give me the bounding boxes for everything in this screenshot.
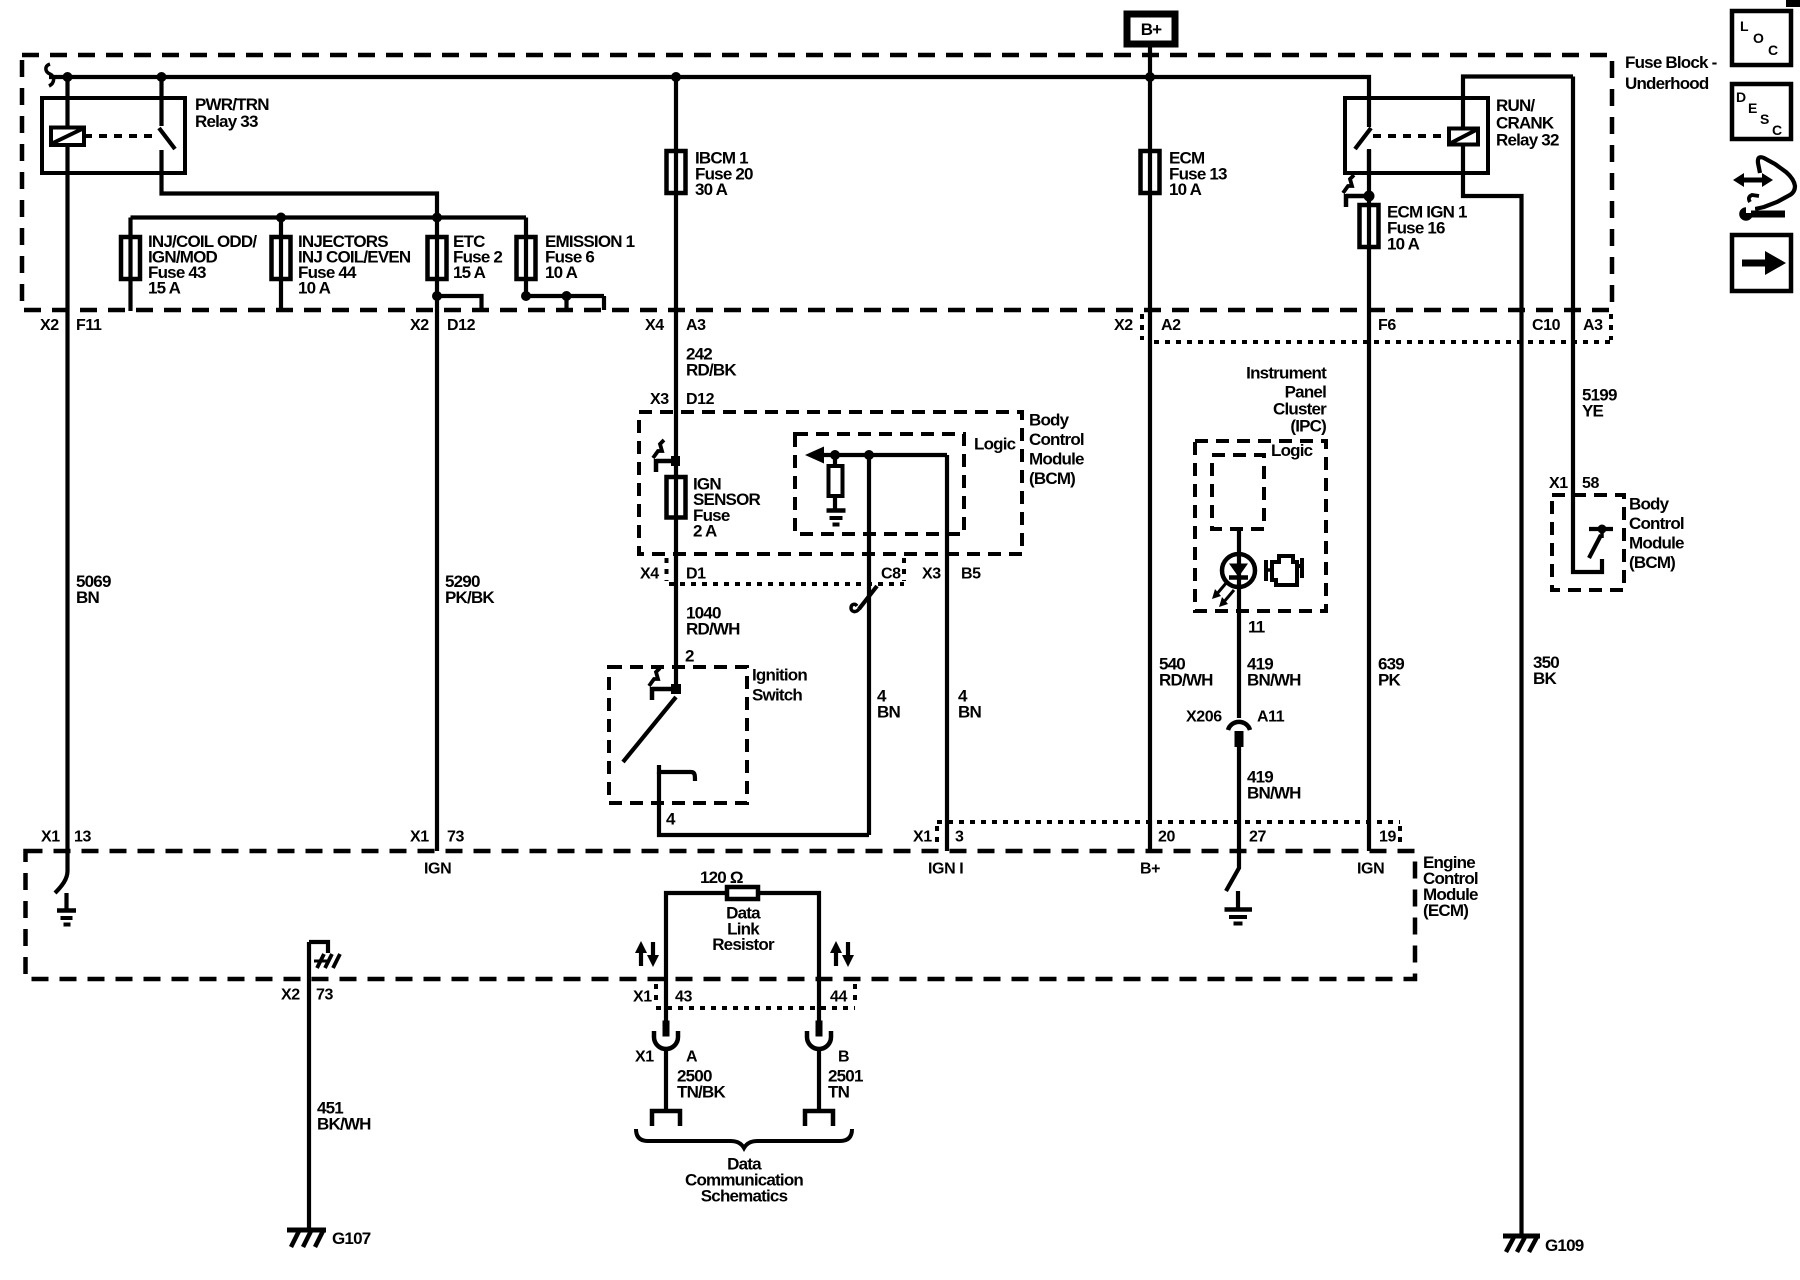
svg-text:(ECM): (ECM) bbox=[1423, 901, 1468, 920]
svg-text:X1: X1 bbox=[41, 829, 60, 846]
svg-text:(BCM): (BCM) bbox=[1629, 553, 1675, 572]
ignition switch blade bbox=[623, 697, 676, 762]
svg-text:58: 58 bbox=[1582, 475, 1599, 492]
wire C8 to ignition switch bbox=[867, 455, 871, 835]
fuse F16 ECM IGN 1 bbox=[1360, 205, 1379, 247]
icon LOC box bbox=[1732, 11, 1791, 65]
serial data arrows left bbox=[639, 951, 643, 966]
svg-text:D12: D12 bbox=[447, 317, 476, 334]
ECM dashed box bbox=[26, 851, 1416, 979]
junction dot bus-fuse2 bbox=[432, 213, 442, 223]
fuse block label strip right bbox=[1154, 340, 1611, 344]
serial data arrows right bbox=[834, 951, 838, 966]
svg-text:X1: X1 bbox=[410, 829, 429, 846]
relay K32 RUN/CRANK box bbox=[1345, 98, 1488, 173]
relay K33 link bbox=[84, 134, 157, 138]
junction dot logic C8 tap bbox=[864, 450, 874, 460]
svg-text:Logic: Logic bbox=[974, 435, 1016, 454]
svg-text:2: 2 bbox=[685, 647, 694, 666]
svg-text:C: C bbox=[1772, 122, 1782, 138]
svg-text:X1: X1 bbox=[1549, 475, 1568, 492]
svg-text:Module: Module bbox=[1629, 534, 1684, 553]
relay K32 coil bbox=[1449, 129, 1478, 145]
splice curl at bus start bbox=[46, 64, 54, 86]
fuse IGN SENSOR 2A bbox=[667, 477, 686, 518]
connector on fuse16 wire bbox=[1364, 191, 1375, 202]
wire 5199 YE to BCM 58 bbox=[1571, 77, 1575, 496]
svg-text:BN: BN bbox=[76, 588, 99, 607]
BCM dashed box bbox=[639, 412, 1022, 554]
svg-text:Ignition: Ignition bbox=[752, 666, 807, 685]
svg-text:A: A bbox=[686, 1049, 698, 1066]
svg-text:10 A: 10 A bbox=[545, 263, 578, 282]
svg-text:IGN: IGN bbox=[424, 861, 451, 878]
svg-text:10 A: 10 A bbox=[298, 279, 331, 298]
junction dot fuse6 stub bbox=[521, 291, 531, 301]
wire 419 BN/WH to ECM pin27 bbox=[1237, 747, 1241, 851]
wire main B+ bus bbox=[49, 77, 1369, 127]
wire resistor right leg bbox=[758, 893, 819, 1021]
connector symbol wire 2500 bbox=[663, 1021, 670, 1037]
svg-text:A11: A11 bbox=[1257, 709, 1285, 726]
svg-text:BN/WH: BN/WH bbox=[1247, 784, 1301, 803]
svg-text:11: 11 bbox=[1248, 618, 1265, 637]
junction dot bus-B+ bbox=[1145, 72, 1155, 82]
terminal lug wire 2500 bbox=[652, 1111, 680, 1126]
fuse F43 bbox=[128, 218, 132, 312]
wire 639 PK: relay32 switch to ECM IGN bbox=[1367, 149, 1371, 851]
svg-text:Instrument: Instrument bbox=[1246, 364, 1327, 383]
svg-text:X3: X3 bbox=[650, 391, 669, 408]
svg-text:2 A: 2 A bbox=[693, 522, 717, 541]
svg-text:E: E bbox=[1748, 100, 1757, 116]
wire fuse2 stub bbox=[437, 296, 482, 310]
relay K33 PWR/TRN box bbox=[42, 98, 185, 173]
IPC logic dashed box bbox=[1212, 455, 1264, 529]
svg-text:YE: YE bbox=[1582, 402, 1604, 421]
ignition switch contact pin 4 bbox=[659, 765, 695, 781]
svg-text:27: 27 bbox=[1249, 829, 1266, 846]
svg-text:D: D bbox=[1736, 89, 1746, 105]
junction dot bus-coil33 bbox=[63, 72, 73, 82]
svg-text:BK: BK bbox=[1533, 669, 1557, 688]
svg-text:20: 20 bbox=[1158, 829, 1175, 846]
ground ECM pin13 bbox=[64, 893, 68, 910]
svg-text:IGN: IGN bbox=[1357, 861, 1384, 878]
svg-text:120 Ω: 120 Ω bbox=[700, 868, 743, 887]
svg-text:C: C bbox=[1768, 42, 1778, 58]
svg-text:(IPC): (IPC) bbox=[1290, 417, 1326, 436]
svg-text:G107: G107 bbox=[332, 1229, 371, 1248]
svg-text:15 A: 15 A bbox=[148, 279, 181, 298]
svg-text:D12: D12 bbox=[686, 391, 715, 408]
svg-text:PK/BK: PK/BK bbox=[445, 588, 495, 607]
svg-text:Logic: Logic bbox=[1271, 441, 1313, 460]
svg-text:PK: PK bbox=[1378, 671, 1402, 690]
svg-text:B5: B5 bbox=[961, 566, 981, 583]
hook on IGN SENSOR fuse wire bbox=[656, 459, 676, 464]
icon harness arrow bbox=[1741, 178, 1766, 183]
wire relay33 switch output to fuse bus bbox=[162, 173, 438, 218]
svg-text:L: L bbox=[1740, 18, 1749, 34]
BCM right dashed box bbox=[1552, 495, 1624, 590]
node B+ bbox=[1127, 14, 1175, 44]
fuse F2 ETC bbox=[428, 237, 447, 279]
connector symbol wire 2501 bbox=[816, 1021, 823, 1037]
wire relay33 coil to ECM pin13 bbox=[65, 145, 69, 851]
junction dot fuse2 stub bbox=[432, 291, 442, 301]
fuse block underhood dashed border bbox=[22, 55, 1612, 310]
svg-text:73: 73 bbox=[447, 829, 464, 846]
BCM right internal switch bbox=[1573, 495, 1602, 572]
svg-text:44: 44 bbox=[830, 989, 847, 1006]
ignition switch hook bbox=[652, 687, 676, 692]
fuse F44 bbox=[279, 218, 283, 312]
wire ignition switch pin4 to C8 wire bbox=[659, 772, 869, 835]
svg-text:X3: X3 bbox=[922, 566, 941, 583]
wire 2501 TN bbox=[817, 1048, 821, 1111]
resistor in BCM logic bbox=[833, 455, 837, 466]
svg-text:A3: A3 bbox=[686, 317, 706, 334]
svg-text:4: 4 bbox=[666, 810, 676, 829]
wire 451 BK/WH bbox=[307, 942, 311, 1229]
wire 5290 PK/BK bbox=[435, 218, 439, 852]
svg-text:X4: X4 bbox=[645, 317, 664, 334]
svg-text:X2: X2 bbox=[410, 317, 429, 334]
svg-text:C8: C8 bbox=[881, 566, 901, 583]
svg-text:BN: BN bbox=[958, 703, 981, 722]
wire 2500 TN/BK bbox=[664, 1048, 668, 1111]
fuse F6 EMISSION 1 bbox=[524, 218, 528, 297]
ECM chassis ground pin73 bbox=[309, 942, 328, 953]
relay K33 switch bbox=[159, 77, 163, 126]
svg-text:73: 73 bbox=[316, 987, 333, 1004]
svg-text:A2: A2 bbox=[1161, 317, 1181, 334]
svg-text:IGN I: IGN I bbox=[928, 861, 963, 878]
relay K33 coil bbox=[65, 77, 69, 128]
ECM bottom label strip bbox=[656, 1006, 855, 1010]
svg-text:X206: X206 bbox=[1186, 709, 1222, 726]
junction dot bus-fuse44 bbox=[276, 213, 286, 223]
junction dot bus-fuse20 bbox=[671, 72, 681, 82]
svg-text:10 A: 10 A bbox=[1169, 180, 1202, 199]
wire logic through telltale to X206 bbox=[1237, 529, 1241, 718]
junction dot bus-switch33 bbox=[157, 72, 167, 82]
svg-text:10 A: 10 A bbox=[1387, 235, 1420, 254]
BCM lower label strip bbox=[669, 582, 904, 586]
svg-text:Fuse Block -: Fuse Block - bbox=[1625, 53, 1717, 72]
svg-text:Control: Control bbox=[1629, 514, 1684, 533]
svg-text:Resistor: Resistor bbox=[712, 935, 775, 954]
svg-text:RUN/: RUN/ bbox=[1496, 96, 1535, 115]
svg-text:TN: TN bbox=[828, 1083, 850, 1102]
svg-text:F11: F11 bbox=[76, 317, 102, 334]
svg-text:BN/WH: BN/WH bbox=[1247, 671, 1301, 690]
wire fuse bus bbox=[131, 215, 527, 219]
svg-text:Underhood: Underhood bbox=[1625, 74, 1709, 93]
svg-text:X4: X4 bbox=[640, 566, 659, 583]
wire resistor left leg bbox=[666, 893, 727, 1021]
svg-text:RD/WH: RD/WH bbox=[1159, 671, 1213, 690]
svg-text:X1: X1 bbox=[635, 1049, 654, 1066]
svg-text:A3: A3 bbox=[1583, 317, 1603, 334]
svg-text:Relay 32: Relay 32 bbox=[1496, 131, 1559, 150]
wire 350 BK coil low side to G109 bbox=[1463, 145, 1522, 1237]
svg-text:3: 3 bbox=[955, 829, 964, 846]
svg-text:C10: C10 bbox=[1532, 317, 1561, 334]
svg-text:O: O bbox=[1753, 30, 1764, 46]
svg-text:43: 43 bbox=[675, 989, 692, 1006]
svg-text:BK/WH: BK/WH bbox=[317, 1115, 371, 1134]
telltale LED indicator bbox=[1222, 554, 1255, 587]
ground G107 bbox=[287, 1228, 326, 1233]
ECM X1 label strip bbox=[937, 820, 1400, 824]
svg-text:TN/BK: TN/BK bbox=[677, 1083, 726, 1102]
svg-text:30 A: 30 A bbox=[695, 180, 728, 199]
junction dot logic resistor tap bbox=[830, 450, 840, 460]
svg-text:B+: B+ bbox=[1141, 20, 1162, 39]
ignition switch dashed box bbox=[609, 667, 747, 803]
terminal lug wire 2501 bbox=[805, 1111, 833, 1126]
icon DESC box bbox=[1732, 84, 1791, 139]
ECM internal switch to ground pin27 bbox=[1226, 851, 1239, 891]
fuse F20 IBCM 1 bbox=[674, 77, 678, 689]
svg-text:RD/BK: RD/BK bbox=[686, 361, 737, 380]
BCM logic bus wire with arrow bbox=[821, 453, 947, 457]
svg-text:13: 13 bbox=[74, 829, 91, 846]
svg-text:B: B bbox=[838, 1049, 849, 1066]
svg-text:Module: Module bbox=[1029, 450, 1084, 469]
connector C8 symbol bbox=[859, 586, 877, 609]
svg-text:X1: X1 bbox=[633, 989, 652, 1006]
engine icon bbox=[1264, 560, 1268, 581]
ground in BCM logic bbox=[827, 508, 846, 513]
svg-text:19: 19 bbox=[1379, 829, 1396, 846]
svg-text:F6: F6 bbox=[1378, 317, 1396, 334]
svg-text:D1: D1 bbox=[686, 566, 706, 583]
svg-text:15 A: 15 A bbox=[453, 263, 486, 282]
svg-text:Body: Body bbox=[1629, 495, 1670, 514]
svg-text:Relay 33: Relay 33 bbox=[195, 112, 258, 131]
ground G109 bbox=[1503, 1234, 1540, 1239]
svg-text:Schematics: Schematics bbox=[701, 1187, 788, 1206]
fuse F13 ECM bbox=[1148, 77, 1152, 851]
svg-text:(BCM): (BCM) bbox=[1029, 469, 1075, 488]
svg-text:Body: Body bbox=[1029, 411, 1070, 430]
ECM internal switch to ground pin13 bbox=[55, 851, 68, 893]
corner mark bbox=[1786, 0, 1800, 7]
svg-text:G109: G109 bbox=[1545, 1236, 1584, 1255]
svg-text:X2: X2 bbox=[40, 317, 59, 334]
svg-text:X1: X1 bbox=[913, 829, 932, 846]
svg-text:B+: B+ bbox=[1140, 861, 1160, 878]
wire fuse6 stubs bbox=[526, 294, 604, 298]
wire B5 to ECM IGN I bbox=[945, 455, 949, 851]
svg-text:X2: X2 bbox=[281, 987, 300, 1004]
svg-text:X2: X2 bbox=[1114, 317, 1133, 334]
svg-text:BN: BN bbox=[877, 703, 900, 722]
icon forward arrow box bbox=[1732, 235, 1791, 291]
relay K32 switch bbox=[1355, 128, 1371, 149]
relay K32 link bbox=[1373, 134, 1444, 138]
BCM logic dashed box bbox=[795, 434, 964, 534]
svg-text:RD/WH: RD/WH bbox=[686, 620, 740, 639]
wire B+ drop bbox=[1148, 44, 1152, 77]
svg-text:Switch: Switch bbox=[752, 686, 802, 705]
brace data communication bbox=[636, 1129, 852, 1148]
ground ECM pin27 bbox=[1236, 891, 1240, 909]
svg-text:Control: Control bbox=[1029, 430, 1084, 449]
svg-text:S: S bbox=[1760, 111, 1769, 127]
IPC dashed box bbox=[1195, 441, 1326, 611]
